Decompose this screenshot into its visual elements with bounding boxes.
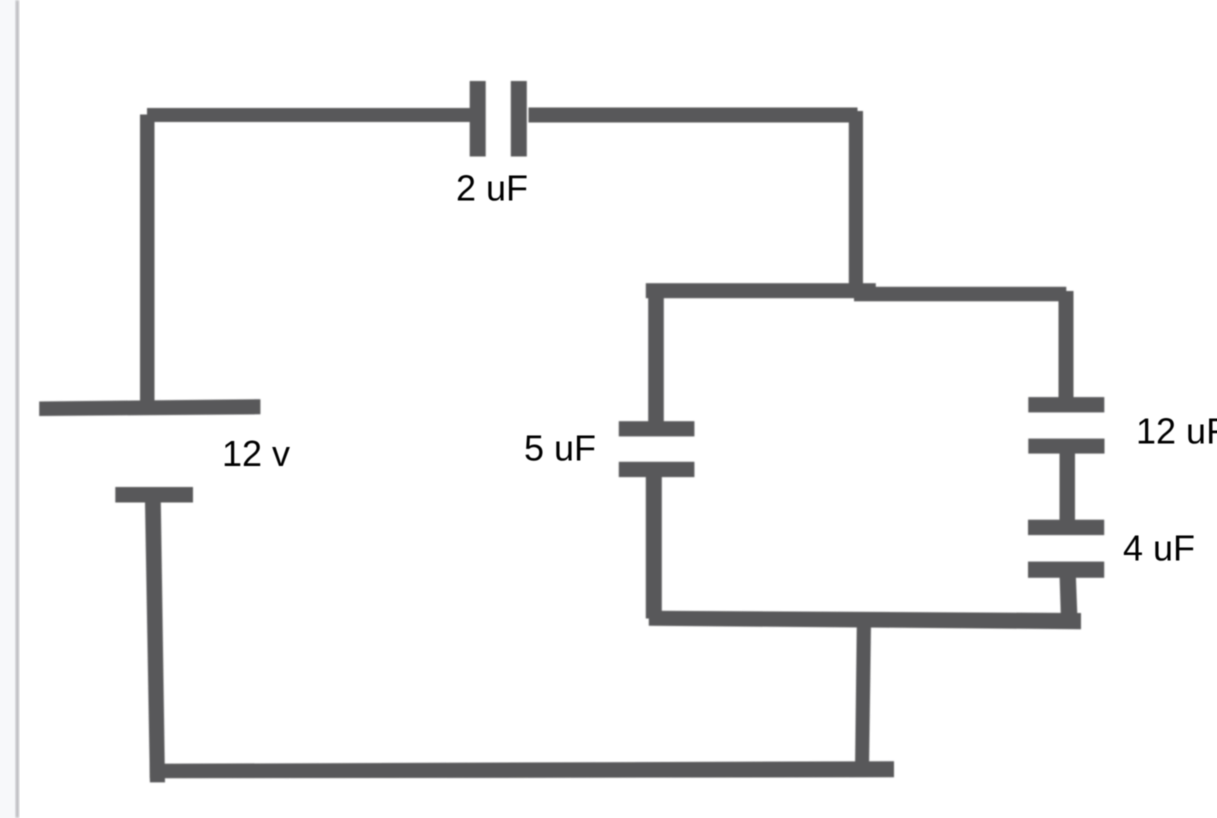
wire: middle vertical to bottom rail	[855, 624, 871, 770]
svg-text:4 uF: 4 uF	[1123, 528, 1195, 569]
wire: top-left horizontal (battery to C1)	[147, 108, 471, 122]
battery B1 12v long plate	[39, 399, 260, 416]
wire: battery lower vertical	[145, 502, 165, 782]
left panel strip	[0, 0, 17, 818]
capacitor C1 2uF right plate	[511, 81, 527, 157]
capacitor C2 5uF bottom plate	[619, 462, 695, 477]
wire: 5uF lower vertical	[646, 477, 662, 619]
capacitor C2 5uF top plate	[619, 421, 695, 436]
svg-text:2 uF: 2 uF	[456, 168, 528, 209]
panel edge shadow	[16, 0, 19, 818]
svg-text:12 v: 12 v	[222, 433, 290, 474]
capacitor C3 12uF bottom plate	[1028, 439, 1104, 454]
wire: inner loop bottom	[649, 611, 1081, 629]
capacitor C4 4uF top plate	[1028, 520, 1104, 535]
wire: vertical between 12uF and 4uF	[1060, 453, 1076, 521]
svg-text:12 uF: 12 uF	[1136, 411, 1217, 452]
wire: bottom rail	[150, 761, 894, 778]
wire: 4uF lower vertical	[1060, 577, 1078, 622]
capacitor C4 4uF bottom plate	[1028, 562, 1104, 578]
wire: top-right horizontal (C1 to node)	[529, 108, 858, 123]
capacitor C1 2uF left plate	[470, 81, 486, 157]
svg-text:5 uF: 5 uF	[524, 428, 596, 469]
battery B1 12v short plate	[115, 487, 193, 503]
wire: inner loop left vertical	[648, 285, 664, 425]
wire: vertical from top wire down to inner loop	[849, 111, 863, 295]
wire: inner loop top, right segment	[854, 287, 1066, 302]
capacitor C3 12uF top plate	[1028, 397, 1104, 412]
wire: inner loop top, left segment	[646, 283, 876, 298]
wire: battery top vertical	[140, 115, 155, 403]
wire: right branch top vertical	[1059, 291, 1074, 399]
